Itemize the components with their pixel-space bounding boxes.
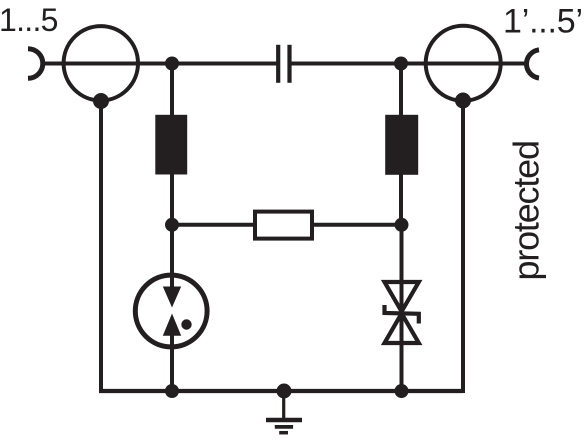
socket contact arc left (line 1...5)	[28, 49, 43, 79]
node: middle wire left junction	[165, 218, 179, 232]
wire: resistor to middle right junction	[314, 223, 402, 227]
gas discharge tube F1: gas-filled indicator dot	[181, 319, 191, 329]
wire: earth stub	[282, 391, 285, 418]
suppressor diode D1: upper triangle	[385, 282, 419, 312]
wire: middle left junction to resistor	[172, 223, 254, 227]
wire: left outer drop (terminal bottom to ground bus)	[99, 101, 103, 393]
node: left terminal bottom junction	[93, 93, 109, 109]
node: suppressor diode at ground bus	[395, 384, 409, 398]
wire: right outer drop (terminal bottom to ground bus)	[461, 100, 465, 393]
ground symbol bar 2	[275, 425, 293, 429]
node: middle wire right junction	[395, 218, 409, 232]
suppressor diode D1: lower triangle	[385, 313, 419, 343]
node: right terminal branch junction	[394, 57, 408, 71]
ground symbol bar 3	[279, 431, 288, 435]
node: left terminal branch junction	[165, 57, 179, 71]
decoupling inductor/resistor left (filled)	[155, 115, 187, 175]
wire: top junction to right decoupling element	[399, 64, 403, 117]
terminal circle left	[64, 26, 138, 100]
terminal circle right	[426, 26, 501, 101]
capacitor C1 plate left	[276, 45, 280, 83]
decoupling inductor/resistor right (filled)	[385, 115, 418, 175]
svg-text:protected: protected	[506, 141, 547, 280]
wire: left terminal to capacitor	[42, 62, 278, 66]
wire: left element to middle junction	[170, 174, 174, 225]
ground bus wire	[99, 389, 463, 393]
svg-text:1...5: 1...5	[0, 2, 58, 38]
node: gas discharge tube at ground bus	[165, 384, 179, 398]
wire: middle junction to gas discharge tube	[170, 225, 174, 288]
gas discharge tube F1: lower electrode arrow	[163, 314, 181, 336]
wire: right element to middle junction	[399, 174, 403, 225]
wire: capacitor to right terminal	[291, 62, 527, 66]
wire: top junction to left decoupling element	[170, 64, 174, 117]
gas discharge tube F1: envelope	[135, 275, 207, 347]
capacitor C1 plate right	[287, 45, 291, 83]
wire: gas discharge tube to ground bus	[170, 334, 174, 391]
ground symbol bar 1	[266, 418, 302, 422]
socket contact arc right (line 1'...5')	[526, 50, 539, 78]
node: earth connection junction	[277, 384, 292, 399]
node: right terminal bottom junction	[455, 93, 471, 109]
resistor R1	[255, 212, 312, 239]
wire: middle junction to suppressor diode	[400, 225, 404, 391]
svg-text:1’...5’: 1’...5’	[503, 3, 583, 41]
suppressor diode D1: cathode Z-bar	[385, 305, 419, 324]
gas discharge tube F1: upper electrode arrow	[163, 287, 181, 308]
